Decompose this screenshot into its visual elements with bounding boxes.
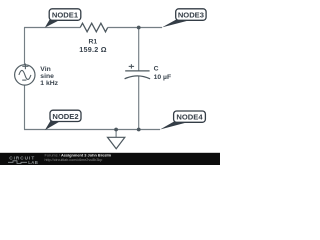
CircuitLab logo	[8, 156, 38, 165]
wire capacitor branch upper	[138, 28, 140, 71]
svg-text:Forums / Assignment 3 John Bre: Forums / Assignment 3 John Breslin	[45, 152, 112, 157]
wire top horizontal right of resistor	[108, 27, 162, 29]
svg-text:LAB: LAB	[28, 160, 38, 165]
svg-text:1 kHz: 1 kHz	[40, 80, 58, 87]
wire capacitor branch lower	[138, 77, 140, 130]
svg-text:NODE3: NODE3	[178, 10, 204, 19]
node junction top	[137, 26, 141, 30]
capacitor C	[125, 64, 151, 79]
node junction bottom ground	[114, 128, 118, 132]
svg-text:159.2 Ω: 159.2 Ω	[79, 45, 107, 54]
svg-text:http://circuitlab.com/c6me2vu8: http://circuitlab.com/c6me2vu8b3kp	[45, 158, 103, 162]
wire top horizontal left of resistor	[24, 27, 80, 29]
voltage source Vin	[15, 64, 35, 86]
node flag NODE1	[45, 9, 81, 28]
wire ground stub	[115, 130, 117, 138]
svg-text:NODE4: NODE4	[176, 113, 203, 122]
ground	[108, 137, 125, 148]
wire bottom horizontal	[24, 129, 160, 131]
node flag NODE3	[162, 9, 206, 28]
node junction bottom capacitor	[137, 128, 141, 132]
node flag NODE4	[160, 111, 205, 130]
wire left vertical lower	[24, 85, 26, 130]
footer bar	[0, 153, 220, 165]
wire top-left vertical	[24, 28, 26, 66]
svg-text:NODE2: NODE2	[52, 112, 78, 121]
svg-text:C: C	[154, 65, 159, 72]
svg-text:NODE1: NODE1	[52, 10, 79, 19]
resistor R1	[80, 23, 108, 32]
svg-text:10 µF: 10 µF	[154, 74, 172, 81]
node flag NODE2	[45, 110, 81, 130]
